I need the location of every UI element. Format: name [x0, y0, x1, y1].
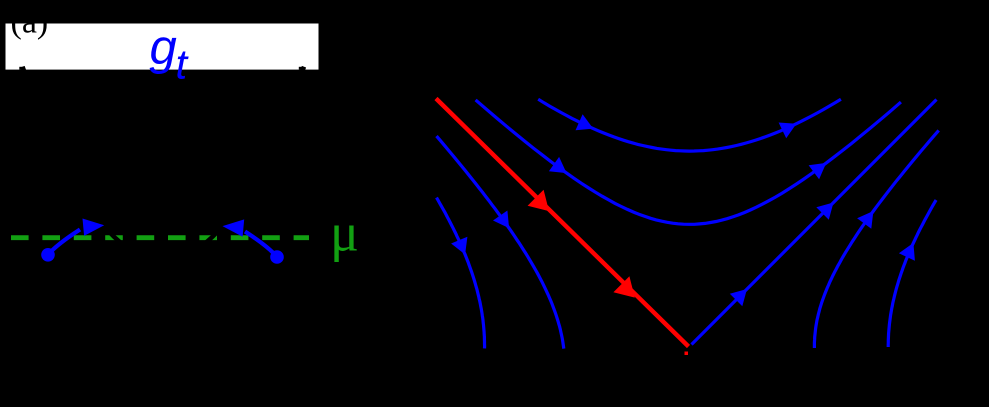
L1 arrow [451, 237, 467, 255]
svg-text:μ: μ [330, 203, 359, 263]
axis tick left [19, 67, 23, 70]
H2 arrow [549, 157, 567, 173]
flow curve left [48, 230, 80, 255]
trajectory R2 [888, 200, 936, 347]
panel (a): white plot strip [6, 24, 319, 70]
saddle point marker [685, 352, 689, 356]
fixed point dot right [270, 250, 284, 264]
trajectory H1 [538, 99, 841, 151]
H1 arrow [779, 123, 797, 139]
H2 arrow [809, 163, 827, 179]
L2 arrow [493, 211, 509, 229]
R1 arrow [857, 211, 873, 229]
svg-text:(a): (a) [11, 4, 49, 41]
H1 arrow [576, 114, 594, 130]
black curve g_t(r) (visible only over white box and green dashes) [23, 67, 305, 261]
trajectory H2 [476, 100, 901, 224]
trajectory R1 [814, 130, 938, 348]
flow arrow right [223, 219, 245, 236]
flow arrow left [83, 219, 105, 236]
trajectory L2 [437, 136, 564, 349]
axis tick right [299, 67, 303, 70]
trajectory L1 [437, 198, 485, 349]
unstable manifold [692, 100, 937, 345]
red arrow 2 [613, 276, 634, 297]
stable manifold (red) [436, 99, 689, 347]
red arrow 1 [528, 190, 549, 211]
svg-text:g: g [150, 21, 177, 75]
separatrix arrow 2 [816, 203, 833, 220]
flow curve right [245, 232, 277, 258]
dashed line mu level [11, 235, 309, 240]
separatrix arrow 1 [730, 289, 747, 306]
R2 arrow [899, 243, 915, 261]
fixed point dot left [41, 248, 55, 262]
panel (b): phase portrait [437, 99, 939, 348]
